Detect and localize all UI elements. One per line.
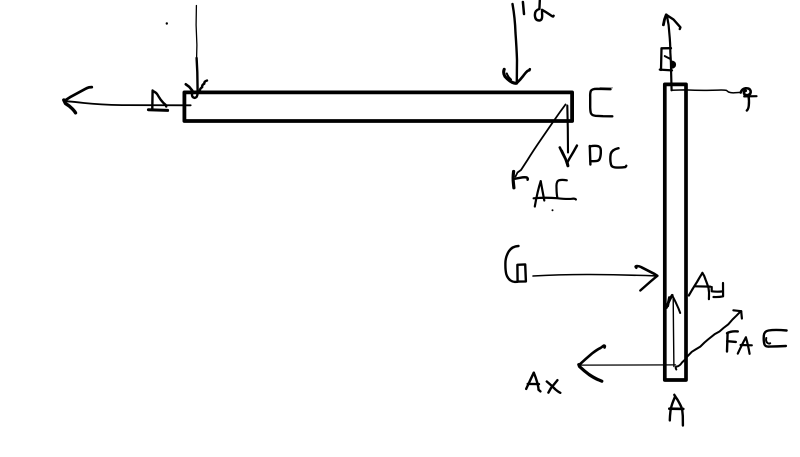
label DC [590,146,627,168]
force arrow G (rightward into column) [533,266,657,291]
force arrow Ax (leftward from A) [579,346,676,382]
label D [148,91,167,111]
down arrow at D (vertical load line) [186,6,207,98]
force arrow FAC (diagonal up-right from A) [676,310,742,369]
beam DC (horizontal member) [184,92,572,121]
label AC [534,180,576,207]
stray dot top-left [166,22,168,24]
label 12 [523,1,554,21]
label C (at beam right end) [590,88,612,117]
label Ay [689,273,723,299]
force arrow AC (diagonal down-left from C) [513,105,565,188]
force arrow Ay (up inside column) [667,295,681,366]
force arrow DC (down from beam right end) [560,106,577,166]
label A (below column) [669,395,683,426]
label G [505,246,526,282]
stray dot below AC [552,209,554,211]
label Ax [526,373,560,393]
rope line with loop (right of column top) [671,88,756,110]
force arrow 12 (down, onto beam near C) [504,4,530,84]
leftward force arrow at D [64,87,191,113]
label FAC [727,330,787,354]
force arrow B (up from column top) [663,15,680,91]
column AB (vertical member) [665,84,686,380]
label B [660,48,676,70]
